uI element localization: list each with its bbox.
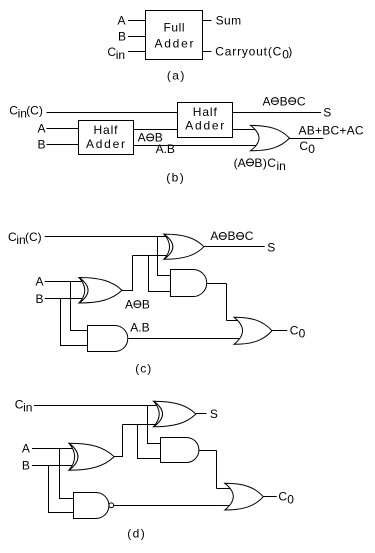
wire C0 output (part c) <box>272 330 287 332</box>
svg-text:B: B <box>36 292 44 306</box>
xor-gate U10 (A xor B, part d) <box>69 443 114 470</box>
svg-text:B: B <box>228 229 236 243</box>
wire Carryout output <box>202 51 212 53</box>
svg-text:0: 0 <box>299 326 306 340</box>
svg-text:A.B: A.B <box>156 142 175 156</box>
wire Cin branch down to and gate (part d) <box>148 406 166 444</box>
svg-text:C: C <box>290 323 299 337</box>
svg-text:B: B <box>38 138 46 152</box>
wire Cin to xor gate 2 (part d) <box>34 405 158 407</box>
wire Cin to half adder 2 <box>47 112 178 114</box>
wire S output (part c) <box>204 246 265 248</box>
svg-text:Carryout(C: Carryout(C <box>215 44 281 58</box>
svg-text:C: C <box>299 139 308 153</box>
svg-text:A: A <box>38 122 46 136</box>
svg-text:B)C: B)C <box>254 156 276 170</box>
net label A(+)B(+)C (part c) <box>210 229 253 243</box>
net label A(+)B <box>138 131 163 145</box>
wire A to half adder 1 <box>47 128 79 130</box>
full adder block U1 <box>146 11 203 60</box>
wire B input to full adder <box>128 36 146 38</box>
wire A xor B branch down to and gate (part d) <box>138 425 166 459</box>
svg-text:): ) <box>288 44 292 58</box>
svg-text:Adder: Adder <box>185 119 224 133</box>
wire and output down to or gate (part d) <box>199 451 230 489</box>
wire A.B to or gate (part c) <box>128 338 244 340</box>
half adder block U2 <box>79 121 134 155</box>
svg-text:S: S <box>323 106 331 120</box>
svg-text:C: C <box>297 94 306 108</box>
svg-text:A.B: A.B <box>130 320 149 334</box>
and-gate U12 (part d) <box>161 438 199 463</box>
svg-text:A: A <box>138 131 146 145</box>
wire B branch down to and gate 1 <box>61 299 93 346</box>
wire B to xor gate 1 (part d) <box>32 465 74 467</box>
net label A(+)B (part c) <box>125 297 150 311</box>
wire A to xor gate 1 (part d) <box>32 448 74 450</box>
svg-text:(C): (C) <box>25 230 42 244</box>
svg-text:A: A <box>210 229 218 243</box>
svg-text:C: C <box>245 229 254 243</box>
xor-gate U11 (sum, part d) <box>154 401 196 427</box>
svg-text:Full: Full <box>164 20 185 34</box>
svg-text:(C): (C) <box>26 103 43 117</box>
svg-text:B: B <box>142 297 150 311</box>
svg-text:Adder: Adder <box>86 137 125 151</box>
wire Cin to xor gate 2 <box>45 236 168 238</box>
wire carry from half adder 2 to OR gate <box>232 129 256 131</box>
net label (A(+)B)Cin <box>234 156 286 173</box>
xor-gate U5 (A xor B, part c) <box>79 278 122 304</box>
svg-text:A: A <box>36 275 44 289</box>
wire A branch down to and gate 1 <box>71 282 93 331</box>
wire S output (part d) <box>196 413 207 415</box>
wire nand output to or gate (part d) <box>114 505 240 507</box>
wire A to xor gate 1 <box>45 281 84 283</box>
node Carryout(C0) (output label) <box>215 44 292 61</box>
node C0 (output label, part d) <box>278 490 294 507</box>
wire xor1 output A xor B up to xor gate 2 <box>122 256 168 292</box>
svg-text:Adder: Adder <box>155 37 194 51</box>
svg-text:(b): (b) <box>166 171 184 185</box>
wire C0 output (part b) <box>290 138 324 140</box>
wire sum output A xor B xor C to S <box>232 112 321 114</box>
svg-text:(c): (c) <box>135 361 151 375</box>
svg-text:Half: Half <box>94 123 119 137</box>
svg-text:(a): (a) <box>167 68 185 82</box>
wire C0 output (part d) <box>263 496 277 498</box>
node Cin (input label, part d) <box>15 398 33 415</box>
svg-text:in: in <box>116 48 125 62</box>
node Cin(C) (input label, part c) <box>8 230 42 247</box>
node C0 (output label, part c) <box>290 323 306 340</box>
svg-text:Sum: Sum <box>216 13 242 27</box>
svg-text:0: 0 <box>287 493 294 507</box>
wire A xor B from half adder 1 to half adder 2 <box>133 129 178 131</box>
and-gate U8 (A.B, part c) <box>88 326 128 352</box>
wire A branch down to nand gate <box>60 449 79 499</box>
svg-text:S: S <box>210 407 218 421</box>
node Cin(C) (input label, part b) <box>9 103 43 120</box>
svg-text:0: 0 <box>308 142 315 156</box>
svg-text:B: B <box>280 94 288 108</box>
svg-text:B: B <box>118 29 126 43</box>
half adder block U3 <box>178 103 233 138</box>
svg-text:S: S <box>267 241 275 255</box>
wire B to xor gate 1 <box>45 298 84 300</box>
wire B to half adder 1 <box>47 144 79 146</box>
net label A(+)B(+)C (part b) <box>263 94 306 108</box>
svg-text:in: in <box>277 159 286 173</box>
svg-text:A: A <box>118 13 126 27</box>
wire A xor B branch down to and gate 2 <box>149 256 176 292</box>
svg-text:(d): (d) <box>127 527 145 541</box>
or-gate U14 (part d) <box>225 483 263 510</box>
node Cin (input label, part a) <box>107 45 125 62</box>
wire A.B from half adder 1 to OR gate <box>133 145 258 147</box>
xor-gate U6 (A xor B xor C, part c) <box>164 234 204 259</box>
wire B branch down to nand gate <box>49 466 79 513</box>
and-gate U7 ((A xor B)Cin, part c) <box>171 270 207 297</box>
svg-text:A: A <box>263 94 271 108</box>
svg-text:A: A <box>22 442 30 456</box>
or-gate U4 (part b) <box>251 125 290 150</box>
svg-text:in: in <box>23 401 32 415</box>
wire A input to full adder <box>128 20 146 22</box>
node C0 (output label, part b) <box>299 139 315 156</box>
svg-text:AB+BC+AC: AB+BC+AC <box>299 123 364 137</box>
svg-text:C: C <box>278 490 287 504</box>
svg-text:(A: (A <box>234 156 246 170</box>
or-gate U9 (part c) <box>234 317 272 344</box>
wire xor1 output up to xor gate 2 (part d) <box>114 425 158 458</box>
wire Sum output <box>202 20 212 22</box>
wire and2 output down to or gate (part c) <box>207 284 240 321</box>
wire Cin input to full adder <box>128 51 146 53</box>
svg-text:Half: Half <box>193 105 218 119</box>
wire Cin branch down to and gate 2 <box>158 237 176 276</box>
svg-text:A: A <box>125 297 133 311</box>
svg-text:B: B <box>22 459 30 473</box>
nand-gate U13 (part d) <box>74 493 114 519</box>
